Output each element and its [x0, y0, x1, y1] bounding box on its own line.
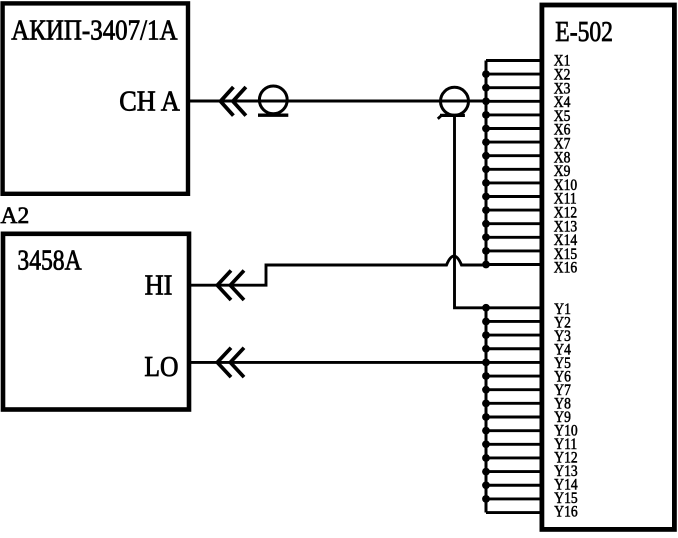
pin X4 lead	[486, 100, 543, 103]
svg-text:CH A: CH A	[119, 84, 180, 117]
pin label Y7	[554, 382, 571, 399]
pin X1 lead	[486, 59, 543, 62]
pin label Y1	[554, 301, 571, 318]
junction dot Y bus / Y11	[482, 440, 490, 448]
pin label Y11	[554, 436, 577, 453]
pin X10 lead	[486, 181, 543, 184]
svg-text:E-502: E-502	[555, 15, 613, 48]
junction dot Y bus / Y10	[482, 427, 490, 435]
junction dot Y bus / Y8	[482, 399, 490, 407]
pin X6 lead	[486, 127, 543, 130]
pin label X16	[554, 260, 577, 277]
pin X13 lead	[486, 222, 543, 225]
junction dot Y bus / Y15	[482, 495, 490, 503]
device A1 generator AKIP-3407/1A box	[3, 3, 188, 193]
svg-text:Y16: Y16	[554, 503, 577, 520]
pin Y6 lead	[486, 375, 543, 378]
connector chevron W1 on CH A cable (double arrow)	[221, 87, 246, 116]
pin label X9	[554, 163, 571, 180]
pin Y1 lead	[486, 306, 543, 309]
pin Y12 lead	[486, 457, 543, 460]
pin Y4 lead	[486, 347, 543, 350]
junction dot X bus / X2	[482, 70, 490, 78]
pin Y7 lead	[486, 388, 543, 391]
pin X8 lead	[486, 154, 543, 157]
pin Y13 lead	[486, 470, 543, 473]
pin Y14 lead	[486, 484, 543, 487]
pin label X12	[554, 205, 577, 222]
junction dot Y bus / Y6	[482, 372, 490, 380]
pin label X5	[554, 108, 571, 125]
pin label X13	[554, 218, 577, 235]
pin label HI	[145, 268, 173, 300]
pin label Y2	[554, 315, 571, 332]
pin Y16 lead	[486, 511, 543, 514]
label 3458A	[17, 243, 81, 276]
junction dot X bus / X15	[482, 247, 490, 255]
pin X16 lead	[486, 263, 543, 266]
pin label Y8	[554, 395, 571, 412]
pin X11 lead	[486, 195, 543, 198]
junction dot Y bus / Y4	[482, 345, 490, 353]
junction dot X bus / X4	[482, 97, 490, 105]
device E-502 DAQ module box	[542, 5, 675, 529]
pin Y5 lead	[486, 361, 543, 364]
label AKIP-3407/1A	[11, 14, 178, 46]
junction dot Y bus / Y13	[482, 468, 490, 476]
junction dot X bus / X16	[482, 261, 490, 269]
wire HI to X bus (node at X16) with hop over shield wire	[190, 256, 486, 285]
junction dot X bus / X9	[482, 165, 490, 173]
pin label X6	[554, 122, 571, 139]
junction dot X bus / X3	[482, 84, 490, 92]
svg-text:АКИП-3407/1А: АКИП-3407/1А	[11, 14, 178, 46]
junction dot X bus / X14	[482, 233, 490, 241]
pin X9 lead	[486, 168, 543, 171]
connector chevron W2 on HI lead (double arrow)	[217, 271, 244, 301]
pin X2 lead	[486, 73, 543, 76]
pin label Y10	[554, 422, 577, 439]
pin label X15	[554, 246, 577, 263]
pin Y15 lead	[486, 497, 543, 500]
svg-text:X16: X16	[554, 260, 577, 277]
pin label Y5	[554, 355, 571, 372]
designator A2	[1, 203, 30, 229]
pin X5 lead	[486, 113, 543, 116]
pin label Y12	[554, 449, 577, 466]
wire Y bus (Y1-Y16 common)	[485, 308, 488, 513]
pin label Y13	[554, 463, 577, 480]
junction dot Y bus / Y3	[482, 331, 490, 339]
junction dot X bus / X7	[482, 138, 490, 146]
junction dot Y bus / Y2	[482, 318, 490, 326]
junction dot X bus / X8	[482, 152, 490, 160]
pin Y2 lead	[486, 320, 543, 323]
junction dot Y bus / Y9	[482, 413, 490, 421]
junction dot Y bus / Y1	[482, 304, 490, 312]
pin X15 lead	[486, 249, 543, 252]
junction dot X bus / X5	[482, 111, 490, 119]
wire shield of XW2 down to Y bus (node Y1)	[455, 115, 487, 307]
pin label X8	[554, 149, 571, 166]
junction dot X bus / X11	[482, 193, 490, 201]
pin X12 lead	[486, 209, 543, 212]
pin label Y14	[554, 476, 578, 493]
pin label Y6	[554, 369, 571, 386]
pin Y11 lead	[486, 443, 543, 446]
svg-text:3458A: 3458A	[17, 243, 81, 276]
pin X3 lead	[486, 86, 543, 89]
pin label X1	[554, 53, 571, 70]
junction dot X bus / X6	[482, 125, 490, 133]
pin label X4	[554, 94, 571, 111]
pin label CH A	[119, 84, 180, 117]
svg-text:LO: LO	[144, 350, 178, 382]
pin X14 lead	[486, 236, 543, 239]
wire X bus (X1-X16 common)	[485, 61, 488, 265]
pin X7 lead	[486, 141, 543, 144]
pin label Y9	[554, 409, 571, 426]
pin Y3 lead	[486, 334, 543, 337]
pin label X7	[554, 136, 571, 153]
pin label X11	[554, 191, 577, 208]
pin Y8 lead	[486, 402, 543, 405]
junction dot Y bus / Y14	[482, 481, 490, 489]
junction dot X bus / X10	[482, 179, 490, 187]
pin Y10 lead	[486, 429, 543, 432]
wire LO to Y bus (node at Y5)	[190, 361, 486, 364]
pin label X10	[554, 177, 577, 194]
junction dot Y bus / Y12	[482, 454, 490, 462]
junction dot X bus / X13	[482, 220, 490, 228]
pin label Y16	[554, 503, 577, 520]
pin label X14	[554, 232, 578, 249]
pin label LO	[144, 350, 178, 382]
pin label Y4	[554, 342, 571, 359]
pin Y9 lead	[486, 416, 543, 419]
junction dot Y bus / Y7	[482, 386, 490, 394]
coax connector symbol XW2 (circle with shield tail)	[438, 87, 469, 119]
device A2 multimeter 3458A box	[3, 234, 189, 410]
junction dot X bus / X12	[482, 206, 490, 214]
pin label Y3	[554, 328, 571, 345]
pin label X3	[554, 80, 571, 97]
wire CH A to X bus (node at X4)	[190, 100, 486, 103]
svg-text:A2: A2	[1, 203, 30, 229]
label E-502	[555, 15, 613, 48]
coax connector symbol XW1 (circle with shield bar)	[258, 86, 288, 115]
connector chevron W3 on LO lead (double arrow)	[217, 348, 244, 377]
pin label Y15	[554, 490, 577, 507]
pin label X2	[554, 67, 571, 84]
svg-text:HI: HI	[145, 268, 173, 300]
junction dot Y bus / Y5	[482, 359, 490, 367]
